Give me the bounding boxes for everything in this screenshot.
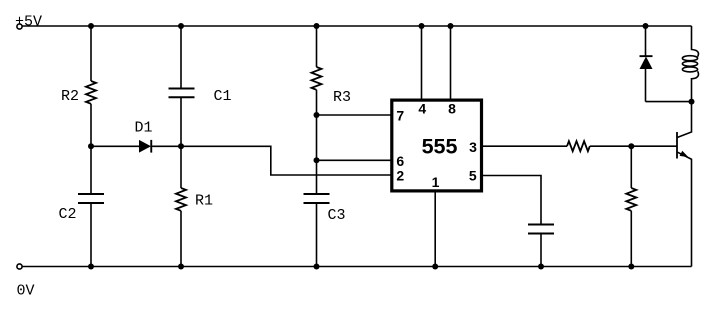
junction 0V R1 bbox=[178, 264, 184, 270]
wire base resistor to transistor base bbox=[590, 145, 677, 147]
svg-text:D1: D1 bbox=[135, 120, 153, 137]
wire pulldown to 0V bbox=[630, 211, 632, 267]
svg-text:R1: R1 bbox=[195, 193, 213, 210]
wire top +5V rail bbox=[23, 25, 692, 27]
wire collector bbox=[678, 102, 692, 138]
transistor Q1 emitter arrow bbox=[680, 151, 689, 158]
inductor L1 bottom lead bbox=[692, 71, 699, 101]
junction base node bbox=[628, 143, 634, 149]
wire pulldown branch upper bbox=[630, 146, 632, 188]
capacitor C1 bbox=[169, 88, 195, 90]
wire C2 to 0V bbox=[90, 203, 92, 267]
svg-text:3: 3 bbox=[469, 139, 477, 155]
junction node D1 cathode bbox=[178, 143, 184, 149]
wire D1 anode bbox=[91, 145, 139, 147]
svg-text:1: 1 bbox=[432, 174, 440, 190]
wire pin 4 bbox=[421, 26, 423, 100]
wire flyback diode anode bbox=[645, 69, 647, 102]
junction top rail pin8 bbox=[448, 23, 454, 29]
junction node D1 anode bbox=[88, 143, 94, 149]
wire flyback diode cathode bbox=[645, 26, 647, 56]
svg-text:5: 5 bbox=[469, 167, 477, 183]
resistor R1 bbox=[176, 188, 186, 211]
transistor Q1 base bar bbox=[676, 132, 678, 159]
wire D1 cathode bbox=[151, 145, 181, 147]
inductor L1 top lead bbox=[692, 26, 699, 57]
capacitor C2 bbox=[78, 193, 104, 195]
resistor R4 base resistor bbox=[567, 141, 590, 151]
wire pin 5 bbox=[482, 176, 542, 225]
inductor L1 coils bbox=[682, 56, 697, 61]
junction pin6 node bbox=[314, 157, 320, 163]
wire R2 to C2 bbox=[90, 104, 92, 194]
wire C1 branch upper bbox=[180, 26, 182, 89]
wire C4 to 0V bbox=[540, 234, 542, 267]
junction 0V pin1 bbox=[432, 264, 438, 270]
wire R3 to C3 bbox=[316, 90, 318, 194]
svg-text:555: 555 bbox=[422, 135, 458, 159]
capacitor C3 bbox=[304, 193, 330, 195]
wire C1 to R1 bbox=[180, 97, 182, 188]
junction top rail R2 bbox=[88, 23, 94, 29]
wire diode to coil node bbox=[646, 101, 692, 103]
wire pin 3 bbox=[482, 145, 568, 147]
wire R2 branch upper bbox=[90, 26, 92, 81]
resistor R5 pulldown bbox=[626, 188, 636, 211]
wire pin 6 bbox=[317, 159, 392, 161]
terminal +5V bbox=[17, 24, 22, 29]
svg-text:C1: C1 bbox=[214, 88, 232, 105]
terminal 0V bbox=[17, 264, 22, 269]
junction coil node bbox=[689, 99, 695, 105]
svg-text:C3: C3 bbox=[328, 207, 346, 224]
junction 0V C3 bbox=[314, 264, 320, 270]
wire pin 8 bbox=[450, 26, 452, 100]
diode D2 flyback bbox=[640, 57, 653, 70]
svg-text:0V: 0V bbox=[17, 283, 35, 300]
capacitor C4 bbox=[528, 224, 554, 226]
junction top rail R3 bbox=[314, 23, 320, 29]
wire pin 7 bbox=[317, 114, 392, 116]
svg-text:7: 7 bbox=[396, 107, 404, 123]
diode D1 bbox=[139, 140, 151, 153]
junction top rail C1 bbox=[178, 23, 184, 29]
svg-text:4: 4 bbox=[418, 101, 426, 117]
svg-text:+5V: +5V bbox=[15, 14, 42, 31]
wire R1 to 0V bbox=[180, 211, 182, 267]
svg-text:C2: C2 bbox=[59, 206, 77, 223]
wire bottom 0V rail bbox=[23, 266, 692, 268]
wire emitter bbox=[678, 152, 692, 266]
junction 0V C4 bbox=[538, 264, 544, 270]
resistor R2 bbox=[86, 81, 96, 104]
svg-text:R3: R3 bbox=[333, 89, 351, 106]
junction pin7 node bbox=[314, 112, 320, 118]
junction top rail pin4 bbox=[419, 23, 425, 29]
svg-text:8: 8 bbox=[448, 101, 456, 117]
junction top rail D2 bbox=[643, 23, 649, 29]
junction 0V pulldown bbox=[628, 264, 634, 270]
wire pin 2 from D1 node bbox=[181, 146, 392, 175]
resistor R3 bbox=[312, 67, 322, 90]
IC U1 555 timer bbox=[392, 100, 482, 191]
svg-text:2: 2 bbox=[396, 167, 404, 183]
wire pin 1 bbox=[434, 191, 436, 267]
wire C3 to 0V bbox=[316, 203, 318, 267]
svg-text:R2: R2 bbox=[61, 88, 79, 105]
wire R3 branch upper bbox=[316, 26, 318, 67]
junction 0V C2 bbox=[88, 264, 94, 270]
